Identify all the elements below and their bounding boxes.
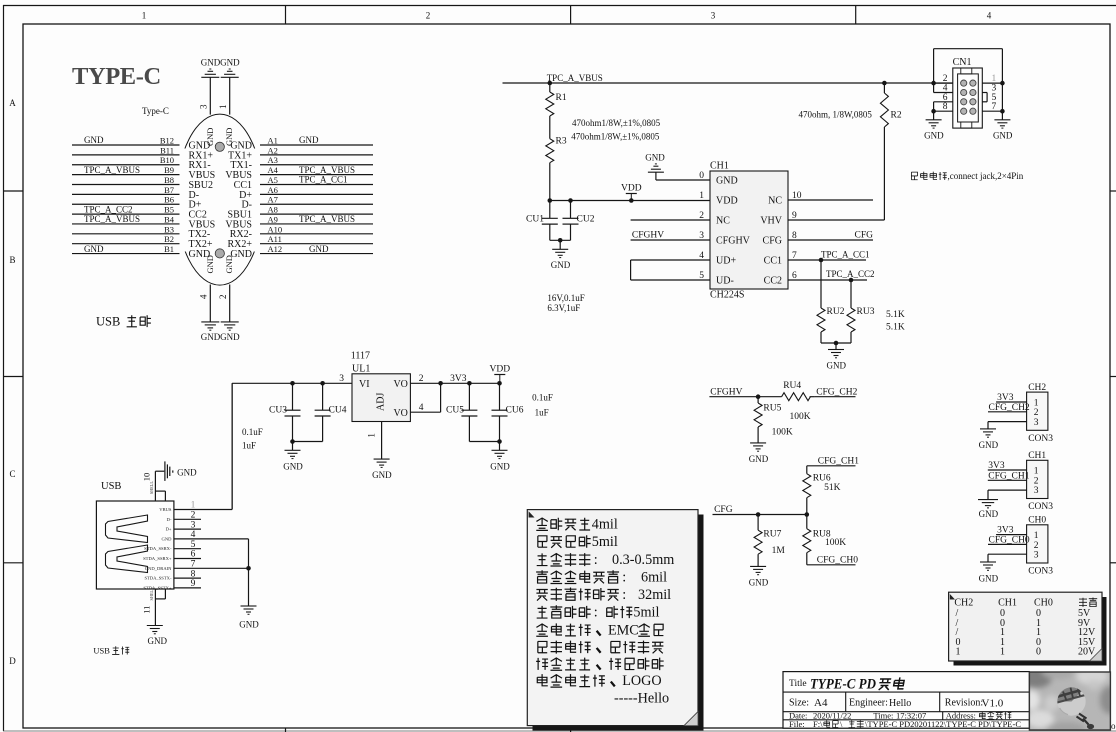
svg-text:File:: File: <box>789 719 805 729</box>
svg-text:GND: GND <box>309 244 329 254</box>
note line 2 <box>538 534 618 550</box>
pin name D- inside left <box>189 190 200 201</box>
svg-text:UD-: UD- <box>716 276 734 287</box>
top column strip dividers <box>286 5 856 24</box>
connector CN1 bottom tab <box>961 122 972 128</box>
svg-text:CU2: CU2 <box>577 215 595 225</box>
resistor RU7 <box>754 515 781 567</box>
svg-text:CFGHV: CFGHV <box>716 236 751 247</box>
wire CN1 pin6 <box>934 93 953 103</box>
svg-text:GND: GND <box>224 255 234 273</box>
svg-text:TPC_A_VBUS: TPC_A_VBUS <box>299 214 355 224</box>
column number 3 <box>711 11 716 21</box>
svg-text:R1: R1 <box>556 93 567 103</box>
svg-text:4: 4 <box>199 294 209 299</box>
svg-text:1: 1 <box>992 74 997 84</box>
size row <box>789 697 1004 710</box>
svg-text:A11: A11 <box>268 234 282 244</box>
connector J1 Type-C oval body <box>176 114 263 285</box>
wire USB pin 6 STDA_SSRX+ <box>143 550 201 561</box>
pin name VBUS inside left <box>189 219 216 230</box>
chip U1 CH224S body <box>710 171 788 289</box>
svg-text:CH224S: CH224S <box>710 290 744 301</box>
svg-text:STDA_SSRX-: STDA_SSRX- <box>144 546 172 551</box>
svg-text:5: 5 <box>191 540 196 550</box>
capacitor CU1 <box>526 201 558 241</box>
svg-text:2: 2 <box>1034 476 1039 486</box>
svg-text:7: 7 <box>992 102 997 112</box>
wire pin3 CFGHV <box>631 239 710 241</box>
wire pin8 CFG <box>788 239 873 241</box>
svg-text:TYPE-C PD: TYPE-C PD <box>810 676 876 692</box>
resistor RU3 <box>847 280 875 343</box>
ground CH1 <box>978 500 999 519</box>
connector CON3 CH0 body <box>1027 516 1054 577</box>
svg-text:CH2: CH2 <box>1028 383 1046 393</box>
pin name VBUS inside right <box>225 219 252 230</box>
capacitor CU4 <box>315 383 347 441</box>
pin name TX2- inside left <box>189 229 211 240</box>
rotated GND label inside bottom right <box>224 255 234 273</box>
svg-text:CFG: CFG <box>763 236 782 247</box>
svg-text:100K: 100K <box>772 428 793 438</box>
wire pin B1 left <box>72 244 180 254</box>
svg-text:2: 2 <box>218 295 228 300</box>
wire shield pin 4 bottom <box>199 285 211 322</box>
ground below CU1 CU2 <box>551 249 571 270</box>
svg-text:CH0: CH0 <box>1028 516 1046 526</box>
note line 10 <box>537 673 661 689</box>
resistor RU2 <box>817 260 845 343</box>
ground below RU7 <box>749 566 769 587</box>
svg-text:3: 3 <box>1034 486 1039 496</box>
net label TPC_A_CC2 <box>826 269 875 279</box>
svg-text:TPC_A_CC2: TPC_A_CC2 <box>826 269 875 279</box>
value RU4 100K <box>790 412 811 422</box>
svg-text:GND: GND <box>220 58 240 68</box>
svg-text:VI: VI <box>359 379 370 390</box>
svg-text:1117: 1117 <box>351 351 370 362</box>
svg-text:VO: VO <box>393 408 407 419</box>
svg-text:RU4: RU4 <box>783 381 801 391</box>
svg-text:UD+: UD+ <box>716 256 736 267</box>
regulator UL1 body <box>352 374 410 422</box>
svg-text:TPC_A_CC1: TPC_A_CC1 <box>299 175 348 185</box>
row letter D <box>9 656 16 666</box>
svg-text:1: 1 <box>142 11 147 21</box>
UL1 designator <box>351 351 371 375</box>
svg-text:GND: GND <box>205 128 215 146</box>
pin 10 NC name <box>768 191 802 207</box>
svg-text:GND: GND <box>490 462 510 472</box>
wire CFG_CH1 to CH1 <box>988 471 1030 481</box>
wire pin A11 right <box>260 234 373 244</box>
ground top left <box>201 58 221 78</box>
pin name D- inside right <box>241 200 252 211</box>
wire pin10 NC right <box>788 199 873 201</box>
wire pin7 CC1 <box>788 258 866 263</box>
svg-text:4: 4 <box>987 11 992 21</box>
pin 7 CC1 name <box>764 251 797 267</box>
column number 2 <box>426 11 431 21</box>
svg-text:UL1: UL1 <box>352 363 370 374</box>
voltage table header <box>954 598 1097 609</box>
svg-text:A: A <box>9 98 16 108</box>
junction R2 top <box>882 81 887 86</box>
wire pin A3 right <box>260 155 373 165</box>
svg-text:A6: A6 <box>268 185 278 195</box>
svg-text::: : <box>622 570 626 586</box>
wire pin A2 right <box>260 145 373 155</box>
svg-text:GND: GND <box>148 636 168 646</box>
svg-text:CON3: CON3 <box>1028 567 1053 577</box>
ground below CU3 <box>283 450 303 471</box>
svg-text:2: 2 <box>426 11 431 21</box>
svg-text:CON3: CON3 <box>1028 502 1053 512</box>
svg-text:9: 9 <box>191 579 196 589</box>
svg-text:470ohm, 1/8W,0805: 470ohm, 1/8W,0805 <box>799 110 873 120</box>
svg-text:Size:: Size: <box>789 698 809 709</box>
pin name RX1+ inside left <box>189 150 214 161</box>
wire pin B3 left <box>72 224 180 234</box>
gray pad bottom <box>215 249 224 258</box>
power symbol VDD output <box>490 365 511 382</box>
note line 3 <box>537 552 675 568</box>
svg-text:3V3: 3V3 <box>450 374 467 384</box>
svg-text:A1: A1 <box>268 136 278 146</box>
svg-text:B10: B10 <box>160 155 174 165</box>
net label CFGHV <box>710 387 742 397</box>
wire CN1 pin2 <box>934 74 953 84</box>
wire USB shell pin 11 <box>142 587 166 625</box>
voltage table folded corner <box>1090 649 1103 662</box>
pin 1 VDD name <box>699 191 737 207</box>
svg-text:A7: A7 <box>268 195 278 205</box>
resistor R3 <box>546 137 567 201</box>
pin name CC1 inside right <box>234 180 252 191</box>
wire CN1 pin7 <box>982 102 1002 112</box>
svg-text:GND: GND <box>177 467 197 477</box>
svg-text:2: 2 <box>1034 541 1039 551</box>
ground CN1 right <box>993 120 1013 141</box>
svg-text:-----Hello: -----Hello <box>614 690 669 706</box>
svg-text:GND: GND <box>205 255 215 273</box>
value RU6 51K <box>824 483 841 493</box>
ground CH0 <box>979 562 999 583</box>
svg-text:2: 2 <box>1034 408 1039 418</box>
wire pin6 CC2 <box>788 278 867 283</box>
svg-text:1: 1 <box>191 501 196 511</box>
svg-text:CH1: CH1 <box>1028 451 1046 461</box>
svg-text:3: 3 <box>1034 418 1039 428</box>
svg-text:GND: GND <box>299 135 319 145</box>
svg-text:TPC_A_VBUS: TPC_A_VBUS <box>547 73 603 83</box>
wire pin B7 left <box>72 185 180 195</box>
svg-text:RU3: RU3 <box>857 307 875 317</box>
ground bottom left <box>201 322 221 342</box>
wire UL1 ADJ <box>381 422 383 460</box>
svg-text:100K: 100K <box>790 412 811 422</box>
svg-text:LOGO: LOGO <box>622 673 661 689</box>
svg-text:1: 1 <box>699 191 704 201</box>
right edge row ticks <box>1110 191 1116 563</box>
svg-text:CU4: CU4 <box>329 406 347 416</box>
wire UL1 VO pin4 loop <box>410 383 440 412</box>
wire shield pin 3 top <box>199 77 211 114</box>
svg-text:0.1uF: 0.1uF <box>242 427 263 437</box>
ground below USB pins <box>239 606 259 630</box>
svg-text:B11: B11 <box>160 145 174 155</box>
svg-text:F:\: F:\ <box>813 719 823 729</box>
svg-text:2: 2 <box>419 374 424 384</box>
svg-text:C: C <box>9 469 15 479</box>
capacitor CU5 <box>446 383 477 441</box>
svg-text:CFGHV: CFGHV <box>710 387 742 397</box>
svg-text:A9: A9 <box>268 214 278 224</box>
svg-text:5mil: 5mil <box>633 605 659 621</box>
wire pin B8 left <box>72 175 180 185</box>
svg-text:STDA_SSTX-: STDA_SSTX- <box>144 576 172 581</box>
note line 5 <box>536 587 671 603</box>
svg-text:0.3-0.5mm: 0.3-0.5mm <box>612 552 674 568</box>
svg-text:B2: B2 <box>164 234 174 244</box>
net label 3V3 <box>450 374 467 384</box>
resistor RU5 <box>754 397 781 443</box>
svg-text:1uF: 1uF <box>242 441 256 451</box>
svg-text:1: 1 <box>218 105 228 110</box>
wire CN1 pin4 <box>931 81 953 94</box>
label USB <box>101 481 121 492</box>
svg-text:5mil: 5mil <box>592 534 618 550</box>
svg-text:B: B <box>9 255 15 265</box>
svg-text:GND: GND <box>645 153 665 163</box>
net label CFG at pin8 <box>855 231 874 241</box>
note box body <box>527 510 698 726</box>
wire pin B9 left <box>72 165 180 175</box>
UL1 pin numbers <box>339 374 423 438</box>
caption connect jack <box>911 171 1023 181</box>
svg-text:VO: VO <box>393 379 407 390</box>
chip designator CH1 <box>710 161 729 172</box>
svg-text:B5: B5 <box>164 205 174 215</box>
wire USB pin 7 GND_DRAIN <box>145 560 249 571</box>
svg-text:GND: GND <box>716 176 738 187</box>
wire 3V3 CH0 <box>996 526 1027 536</box>
pin name VBUS inside right <box>225 170 252 181</box>
svg-text:B8: B8 <box>164 175 174 185</box>
svg-text:8: 8 <box>943 102 948 112</box>
label USB terminal (bottom) <box>93 646 129 656</box>
wire pin B10 left <box>72 155 180 165</box>
svg-text:1: 1 <box>368 433 378 438</box>
wire pin A8 right <box>260 205 373 215</box>
svg-text:4mil: 4mil <box>592 517 618 533</box>
row letter A <box>9 98 16 108</box>
svg-text:GND: GND <box>979 509 999 519</box>
wire pin A4 right <box>260 165 373 175</box>
net label CFG_CH2 <box>815 387 858 397</box>
svg-text:B7: B7 <box>164 185 174 195</box>
wire 3V3 CH2 <box>996 393 1027 403</box>
svg-text:CU1: CU1 <box>526 215 544 225</box>
svg-text:0: 0 <box>1036 647 1041 658</box>
svg-text:6.3V,1uF: 6.3V,1uF <box>547 303 580 313</box>
pin name GND inside right <box>230 249 252 260</box>
value CU5 CU6 <box>532 393 553 418</box>
net label CFG_CH0 <box>807 555 858 565</box>
net label CFG <box>714 505 733 515</box>
wire UL1 output <box>410 381 501 386</box>
svg-text:STDA_SSRX+: STDA_SSRX+ <box>143 556 172 561</box>
svg-text:GND: GND <box>979 440 999 450</box>
svg-text:RU2: RU2 <box>827 307 845 317</box>
voltage table body <box>949 592 1102 661</box>
svg-text:GND: GND <box>283 462 303 472</box>
value label CU1 CU2 <box>547 293 584 313</box>
wire CFG <box>713 512 810 517</box>
svg-text:Hello: Hello <box>889 698 911 709</box>
svg-text:2: 2 <box>191 511 196 521</box>
rotated GND label inside top right <box>224 128 234 146</box>
wire pin B11 left <box>72 145 180 155</box>
svg-text:GND: GND <box>993 131 1013 141</box>
wire CN1 pin1 <box>982 74 1002 84</box>
svg-text:VDD: VDD <box>716 196 738 207</box>
note line 11 <box>614 690 669 706</box>
wire shield pin 2 bottom <box>218 285 230 322</box>
svg-text:1uF: 1uF <box>535 408 549 418</box>
pin 5 UD- name <box>699 271 734 287</box>
wire pin A1 right <box>260 135 373 145</box>
wire TPC_A_VBUS main <box>503 82 953 84</box>
connector USB body <box>96 501 173 589</box>
svg-text:0.1uF: 0.1uF <box>532 393 553 403</box>
pin name RX2- inside right <box>230 229 252 240</box>
svg-text:GND: GND <box>372 470 392 480</box>
svg-text:3: 3 <box>199 104 209 109</box>
pin 9 VHV name <box>760 211 797 227</box>
svg-text:D+: D+ <box>166 527 172 532</box>
pin 0 GND name <box>699 171 737 187</box>
rotated GND label inside top left <box>205 128 215 146</box>
pin 4 UD+ name <box>699 251 736 267</box>
wire CN1 pin8 <box>931 102 953 120</box>
wire USB pin 4 GND <box>162 530 249 541</box>
wire pin A9 right <box>260 214 373 224</box>
svg-text:CU6: CU6 <box>506 406 524 416</box>
svg-text:TPC_A_CC2: TPC_A_CC2 <box>84 204 133 214</box>
svg-text:3: 3 <box>711 11 716 21</box>
svg-text:TPC_A_CC1: TPC_A_CC1 <box>821 249 870 259</box>
svg-text:6: 6 <box>191 550 196 560</box>
voltage table rows <box>956 608 1097 658</box>
svg-text:CON3: CON3 <box>1028 434 1053 444</box>
svg-text:A2: A2 <box>268 145 278 155</box>
svg-text:CN1: CN1 <box>953 57 972 68</box>
svg-text:11: 11 <box>142 606 152 614</box>
svg-text:EMC: EMC <box>608 622 639 638</box>
note box folded corner <box>684 712 698 726</box>
svg-text:CFG: CFG <box>714 505 733 515</box>
resistor R1 <box>546 83 567 116</box>
net label CFGHV at pin3 <box>632 231 664 241</box>
svg-text:GND: GND <box>924 131 944 141</box>
svg-text:B4: B4 <box>164 214 175 224</box>
wire CU3 CU4 bottom <box>290 439 322 450</box>
wire CN1 pin3 <box>982 84 996 94</box>
column number 1 <box>142 11 147 21</box>
svg-text:100K: 100K <box>825 538 846 548</box>
svg-text:Title: Title <box>789 679 807 689</box>
svg-text:GND_DRAIN: GND_DRAIN <box>145 566 172 571</box>
connector CN1 designator <box>953 57 972 68</box>
wire CH2 pin3 gnd <box>988 422 1027 429</box>
pin name CC2 inside left <box>189 209 207 220</box>
resistor RU6 <box>803 466 831 515</box>
junction R1 top <box>548 81 553 86</box>
wire CN1 top loop <box>934 49 1005 120</box>
wire CN1 pin5 <box>982 93 996 103</box>
net label TPC_A_CC1 <box>821 249 870 259</box>
value label R2 <box>799 110 873 120</box>
connector CN1 outer body <box>953 68 983 128</box>
capacitor CU6 <box>492 383 524 441</box>
svg-text:SHELL: SHELL <box>149 587 154 600</box>
resistor R2 <box>880 83 901 220</box>
svg-text:1: 1 <box>1034 531 1039 541</box>
pin name GND inside right <box>230 140 252 151</box>
svg-text:GND: GND <box>551 260 571 270</box>
svg-text:GND: GND <box>220 332 240 342</box>
connector CN1 pin pads <box>961 80 976 114</box>
svg-text:VHV: VHV <box>760 216 782 227</box>
wire USB pin 1 VBUS <box>159 501 232 512</box>
pin name TX2+ inside left <box>189 239 213 250</box>
svg-text:CU5: CU5 <box>446 406 464 416</box>
wire VDD net <box>550 200 710 202</box>
svg-text:8: 8 <box>191 569 196 579</box>
svg-text:1: 1 <box>1034 398 1039 408</box>
wire pin B12 left <box>72 135 180 145</box>
svg-text:Engineer:: Engineer: <box>849 698 888 709</box>
note line 4 <box>536 570 667 586</box>
svg-text:51K: 51K <box>824 483 841 493</box>
wire CH1 pin3 gnd <box>988 490 1027 500</box>
wire CU1-CU2 bottom <box>550 238 571 249</box>
column number 4 <box>987 11 992 21</box>
wire USB vbus to UL1 input <box>232 383 352 509</box>
note box corner mark <box>529 511 535 517</box>
svg-text:GND: GND <box>162 536 173 541</box>
svg-text:CFG_CH0: CFG_CH0 <box>817 555 858 565</box>
wire USB vbus riser <box>231 383 233 509</box>
ground below USB shell <box>147 626 168 647</box>
svg-text:GND: GND <box>224 128 234 146</box>
value 5.1K RU2 <box>886 310 905 320</box>
wire CH0 pin3 gnd <box>988 554 1027 562</box>
ground bottom right <box>220 322 240 342</box>
svg-text:3: 3 <box>339 374 344 384</box>
svg-text:CC1: CC1 <box>764 256 782 267</box>
file row <box>789 719 1021 729</box>
svg-text:470ohm1/8W,±1%,0805: 470ohm1/8W,±1%,0805 <box>572 118 661 128</box>
svg-text:VDD: VDD <box>621 184 642 194</box>
ground top right <box>220 58 240 78</box>
svg-text:32mil: 32mil <box>638 587 671 603</box>
wire RU2 RU3 bottom <box>821 341 851 350</box>
svg-text:A4: A4 <box>268 165 279 175</box>
wire USB pin 8 STDA_SSTX- <box>144 569 201 580</box>
